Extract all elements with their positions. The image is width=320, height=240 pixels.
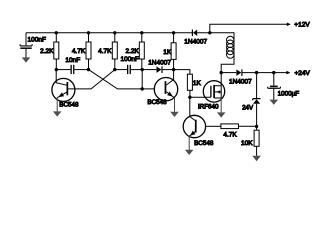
ground M1 source [217, 112, 226, 117]
svg-text:IRF640: IRF640 [198, 104, 219, 111]
junction +24V C5 [272, 71, 275, 74]
ground C1 [22, 57, 31, 62]
ground Q2 [170, 112, 179, 117]
label R3 4.7K [98, 48, 112, 55]
label D3 1N4007 [229, 78, 252, 85]
svg-text:2.2K: 2.2K [126, 48, 140, 55]
resistor R3 4.7K [112, 33, 117, 70]
label M1 IRF640 [198, 104, 219, 111]
svg-text:4.7K: 4.7K [72, 48, 86, 55]
svg-text:+24V: +24V [295, 70, 311, 77]
label R4 2.2K [126, 48, 140, 55]
wire gate line [190, 96, 211, 98]
wire cross-coupling B to Q2 base [89, 70, 155, 89]
junction zener R7 R8 [255, 125, 258, 128]
svg-text:24V: 24V [242, 105, 254, 112]
transistor Q3 BC548 [183, 97, 205, 150]
resistor R7 4.7K base [205, 124, 256, 129]
svg-text:10nF: 10nF [65, 57, 80, 64]
arrow +24V [286, 71, 290, 75]
label C2 10nF [65, 57, 80, 64]
label R6 1K [193, 80, 202, 87]
capacitor C5 1000uF [268, 73, 281, 100]
junction rail +12V branch [208, 31, 211, 34]
svg-text:100nF: 100nF [28, 36, 46, 43]
wire +12V branch [210, 24, 287, 33]
svg-text:BC548: BC548 [194, 140, 214, 147]
label D2 1N4007 [148, 60, 171, 67]
label C5 1000uF [278, 91, 300, 98]
wire top rail left segment [26, 32, 192, 34]
junction gate R6 Q3 collector [188, 96, 191, 99]
inductor L1 coil [227, 36, 234, 58]
resistor R2 4.7K [86, 33, 91, 70]
node Q2 collector junction [172, 68, 175, 71]
node D R4 bottom [141, 68, 144, 71]
svg-text:1000µF: 1000µF [278, 91, 300, 98]
diode D1 1N4007 on rail [192, 30, 197, 37]
wire Q2 collector node to R6 [174, 70, 190, 75]
label R7 4.7K [223, 131, 237, 138]
ground R8 [252, 156, 261, 162]
svg-text:BC548: BC548 [147, 99, 167, 106]
ground Q1 [53, 111, 62, 116]
zener Z1 24V [253, 73, 261, 127]
junction rail R1 top [55, 31, 58, 34]
junction coil drain D3 [220, 71, 223, 74]
resistor R6 1K gate [187, 74, 192, 97]
svg-text:100nF: 100nF [121, 56, 139, 63]
ground C5 [270, 100, 279, 105]
svg-text:1N4007: 1N4007 [148, 60, 171, 67]
node C R3 bottom [113, 68, 116, 71]
label Q1 BC548 [59, 101, 79, 108]
junction rail R3 top [113, 31, 116, 34]
transistor Q1 BC548 [52, 70, 75, 112]
label C3 100nF [121, 56, 139, 63]
svg-text:10K: 10K [241, 140, 253, 147]
label Q3 BC548 [194, 140, 214, 147]
svg-text:1N4007: 1N4007 [184, 39, 207, 46]
diode D3 1N4007 output [236, 69, 286, 76]
svg-text:1N4007: 1N4007 [229, 78, 252, 85]
label R2 4.7K [72, 48, 86, 55]
label Z1 24V [242, 105, 254, 112]
ground Q3 [185, 150, 194, 155]
wire +24V rail [221, 72, 236, 74]
wire node D down to Q2 base line [141, 70, 143, 89]
junction rail R2 top [87, 31, 90, 34]
capacitor C3 100nF [115, 65, 142, 74]
label R5 1K [163, 49, 172, 56]
svg-text:2.2K: 2.2K [40, 48, 54, 55]
resistor R8 10K [254, 127, 259, 156]
transistor Q2 BC548 [154, 70, 177, 112]
resistor R1 2.2K [54, 33, 59, 70]
svg-text:BC548: BC548 [59, 101, 79, 108]
label +12V [294, 22, 310, 29]
label D1 1N4007 [184, 39, 207, 46]
svg-text:1K: 1K [163, 49, 172, 56]
node B R2 bottom [87, 68, 90, 71]
svg-text:4.7K: 4.7K [223, 131, 237, 138]
capacitor C2 10nF [56, 65, 88, 74]
junction +24V zener [255, 71, 258, 74]
node A Q1 collector [55, 68, 58, 71]
wire C1 to ground [25, 49, 27, 58]
svg-text:4.7K: 4.7K [98, 48, 112, 55]
label R8 10K [241, 140, 253, 147]
diode D2 1N4007 to Q2 collector [142, 66, 173, 73]
junction rail R4 top [140, 31, 143, 34]
resistor R4 2.2K [139, 33, 144, 70]
mosfet M1 IRF640 [203, 73, 224, 113]
wire cross-coupling C to Q1 base [68, 70, 115, 89]
svg-text:1K: 1K [193, 80, 202, 87]
resistor R5 1K [171, 33, 176, 70]
label C1 100nF [28, 36, 46, 43]
label Q2 BC548 [147, 99, 167, 106]
capacitor C1 100nF input [20, 33, 32, 48]
junction rail R5 top [172, 31, 175, 34]
arrow +12V [287, 23, 291, 27]
junction node D to Q2 base line [141, 87, 144, 90]
wire top rail right segment [197, 33, 234, 73]
svg-text:+12V: +12V [294, 22, 310, 29]
label +24V [295, 70, 311, 77]
label R1 2.2K [40, 48, 54, 55]
